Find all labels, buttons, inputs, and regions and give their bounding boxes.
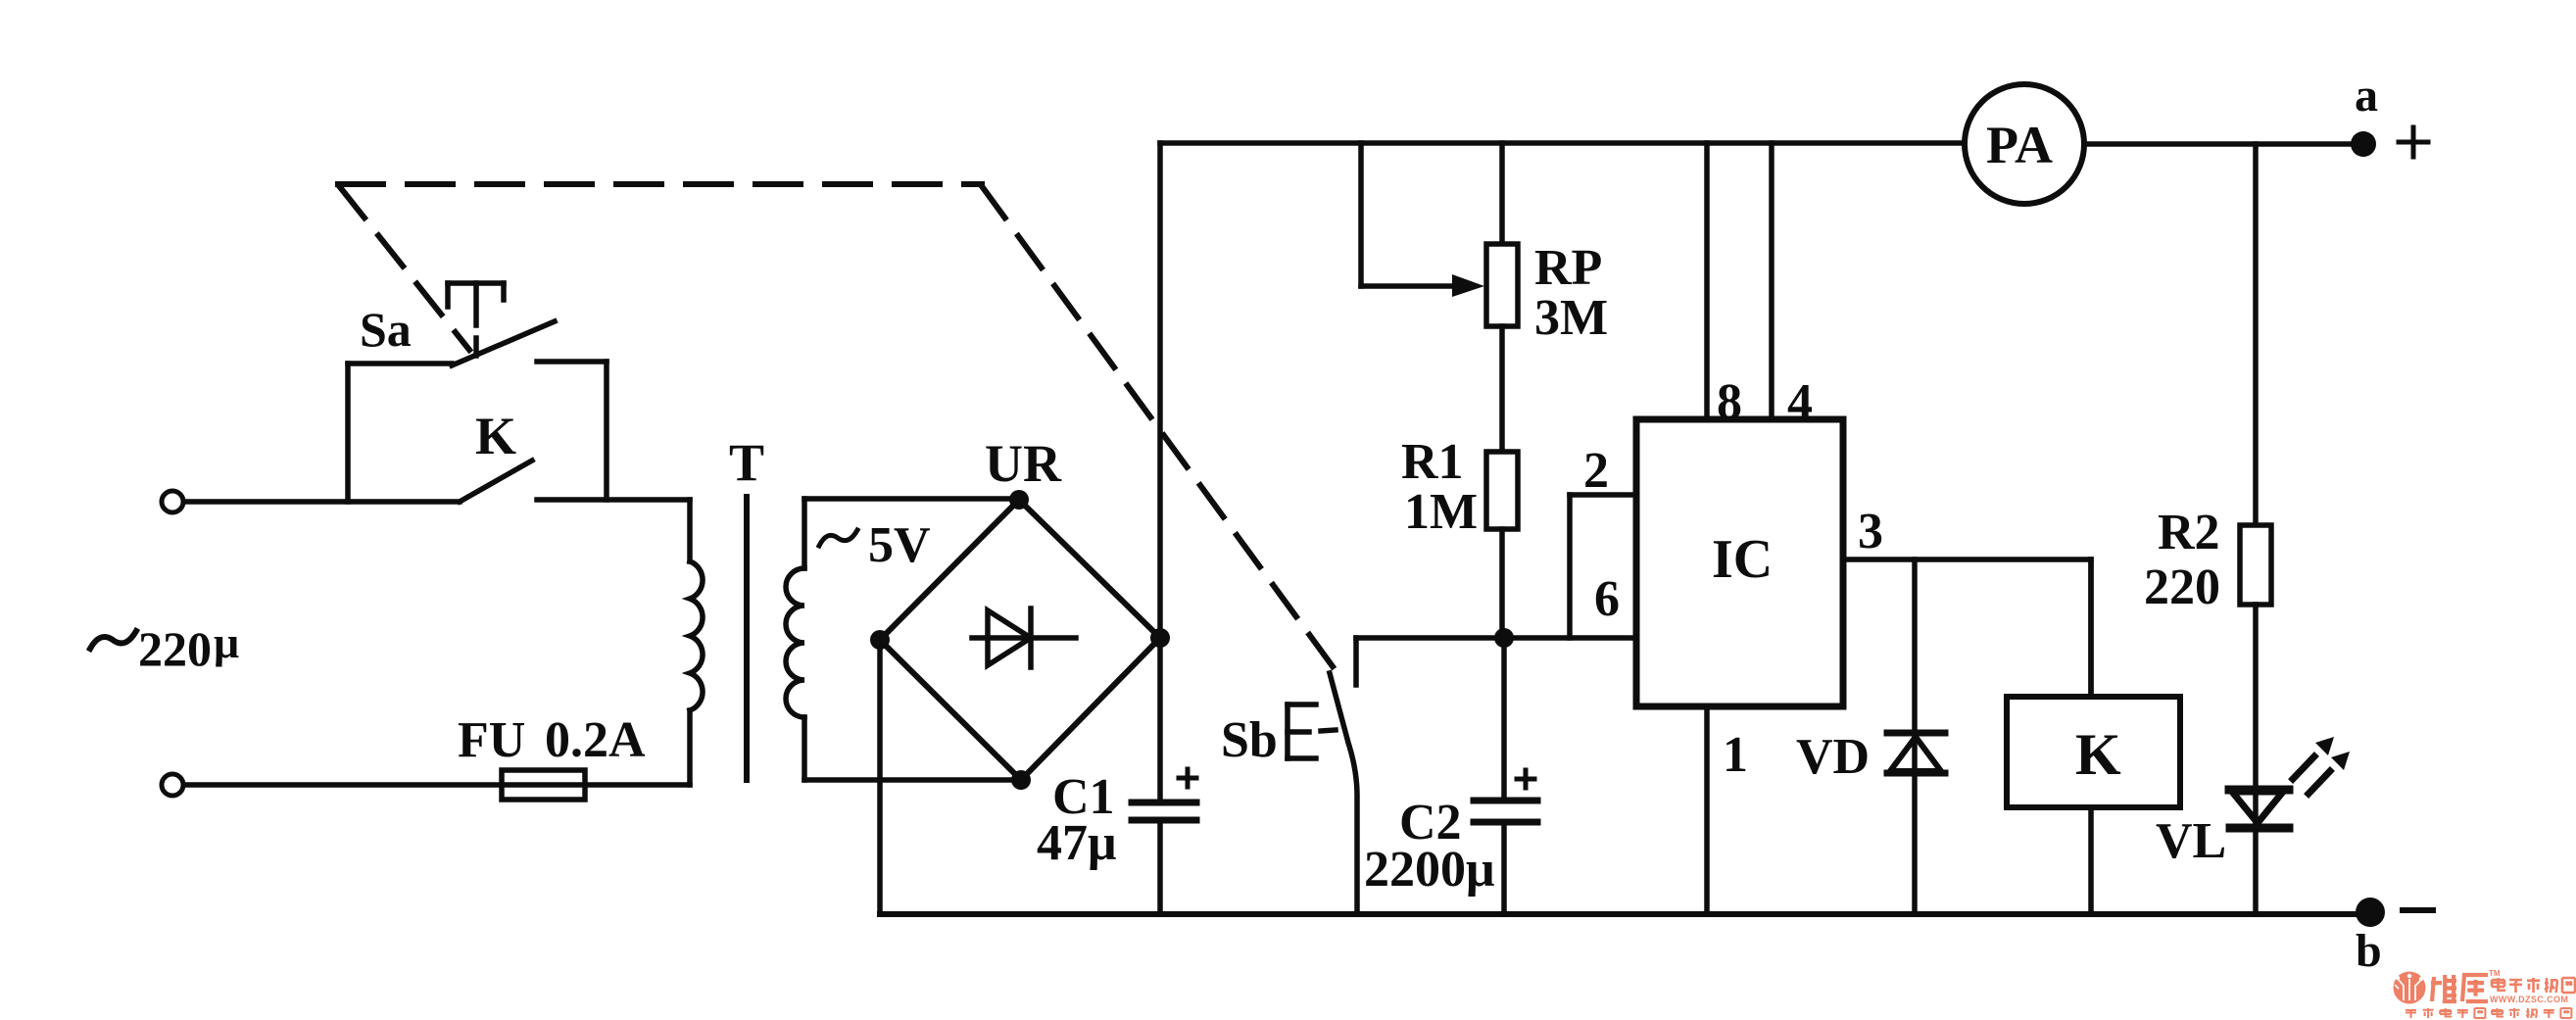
node bridge right xyxy=(1150,628,1170,648)
minus sign at b xyxy=(2403,907,2433,913)
svg-text:0.2A: 0.2A xyxy=(545,712,646,768)
meter PA xyxy=(1965,84,2084,204)
svg-text:4: 4 xyxy=(1787,374,1813,430)
dashed linkage diagonal to Sb xyxy=(982,186,1337,673)
dashed linkage diagonal to Sa xyxy=(340,187,469,350)
svg-text:1: 1 xyxy=(1723,727,1748,783)
node bridge left xyxy=(870,630,890,650)
dashed linkage horizontal xyxy=(338,181,982,187)
svg-text:RP: RP xyxy=(1534,240,1602,296)
relay K box xyxy=(2007,697,2180,807)
terminal input bottom-left xyxy=(162,774,183,796)
pin 6 wire xyxy=(1504,635,1636,641)
wire Sb hook to node xyxy=(1356,638,1504,685)
pin 1 wire xyxy=(1704,706,1710,914)
watermark text 维库 xyxy=(2431,975,2488,1001)
wire Sa branch left vertical xyxy=(345,364,351,502)
relay contact K (arm) xyxy=(460,461,532,502)
pin 2 wire xyxy=(1570,495,1636,638)
node bridge top xyxy=(1009,490,1029,510)
svg-text:IC: IC xyxy=(1712,529,1773,590)
C2 plus sign xyxy=(1517,770,1534,788)
switch Sb moving contact xyxy=(1330,673,1357,914)
RP wiper wire xyxy=(1361,143,1484,297)
pin 4 wire xyxy=(1769,143,1774,419)
wire secondary top to bridge xyxy=(804,496,1019,502)
svg-text:K: K xyxy=(2075,722,2121,787)
svg-text:1M: 1M xyxy=(1404,484,1478,540)
potentiometer RP body xyxy=(1486,244,1518,326)
watermark logo xyxy=(2394,972,2426,1004)
wire secondary bottom to bridge xyxy=(804,777,1023,783)
wire Sa right contact xyxy=(537,359,607,364)
diode VD wire xyxy=(1912,559,1918,914)
svg-text:a: a xyxy=(2355,70,2378,121)
svg-text:R1: R1 xyxy=(1401,434,1464,490)
switch Sa plunger xyxy=(448,283,504,356)
svg-text:UR: UR xyxy=(985,434,1062,493)
transformer T primary xyxy=(690,500,703,785)
svg-text:6: 6 xyxy=(1594,571,1620,627)
svg-text:Sb: Sb xyxy=(1221,712,1278,768)
svg-text:K: K xyxy=(475,407,516,465)
terminal input top-left xyxy=(162,491,183,512)
svg-text:FU: FU xyxy=(458,712,525,768)
watermark slogan xyxy=(2406,1008,2571,1018)
svg-text:3M: 3M xyxy=(1534,290,1608,346)
fuse FU xyxy=(502,770,585,800)
pin 3 wire xyxy=(1843,559,2091,697)
svg-text:220: 220 xyxy=(138,621,212,676)
wire top rail right xyxy=(2084,141,2363,147)
wire rail to R2 xyxy=(2253,144,2259,525)
wire DC plus vertical (rail to bottom) xyxy=(1157,143,1163,914)
svg-text:b: b xyxy=(2356,925,2382,977)
resistor R1 body xyxy=(1486,452,1518,529)
wire bottom input to transformer xyxy=(184,782,690,788)
svg-text:PA: PA xyxy=(1986,116,2053,174)
svg-text:3: 3 xyxy=(1858,504,1883,559)
watermark text 电子市场网 xyxy=(2492,978,2575,993)
capacitor C1 xyxy=(1132,802,1196,820)
svg-text:47μ: 47μ xyxy=(1037,815,1116,871)
svg-text:VD: VD xyxy=(1796,729,1870,785)
transformer secondary xyxy=(786,499,804,780)
wire bottom rail xyxy=(880,911,2370,917)
svg-text:5V: 5V xyxy=(868,517,931,573)
C1 plus sign xyxy=(1179,769,1196,787)
wire Sa branch left horizontal xyxy=(348,361,452,366)
wire Sa branch right vertical xyxy=(604,362,609,500)
plus sign at a xyxy=(2399,127,2428,157)
svg-text:220: 220 xyxy=(2144,559,2220,615)
transformer core xyxy=(744,497,750,780)
IC box xyxy=(1636,419,1843,706)
wire top rail left xyxy=(1160,140,1966,146)
svg-text:TM: TM xyxy=(2489,969,2501,978)
svg-text:R2: R2 xyxy=(2158,505,2220,560)
label ~5V xyxy=(819,517,931,573)
svg-text:Sa: Sa xyxy=(360,302,412,357)
wire K box bottom xyxy=(2088,807,2094,914)
svg-text:2200μ: 2200μ xyxy=(1364,842,1494,898)
capacitor C2 xyxy=(1501,638,1507,914)
svg-text:WWW.DZSC.COM: WWW.DZSC.COM xyxy=(2490,995,2568,1004)
node R1-C2-pin6 junction xyxy=(1494,628,1514,648)
svg-text:8: 8 xyxy=(1717,374,1742,430)
label ~220u xyxy=(90,617,239,676)
wire K contact to transformer xyxy=(537,497,690,503)
diode VD symbol xyxy=(1887,733,1945,773)
wire rail to RP xyxy=(1499,143,1505,244)
switch Sa arm xyxy=(452,321,555,365)
svg-text:T: T xyxy=(729,433,764,492)
wire DC minus vertical (bridge left node down) xyxy=(877,640,883,914)
LED VL symbol xyxy=(2229,790,2289,828)
wire R1 to node xyxy=(1499,529,1505,638)
svg-text:VL: VL xyxy=(2156,813,2226,869)
wire top input to K contact xyxy=(184,499,460,505)
node bridge bottom xyxy=(1011,770,1031,790)
wire RP to R1 xyxy=(1499,326,1505,452)
switch Sb actuator bracket xyxy=(1288,704,1336,758)
terminal a xyxy=(2351,131,2376,157)
wire K box top xyxy=(2088,559,2094,697)
svg-text:2: 2 xyxy=(1583,443,1609,499)
bridge rectifier UR diamond xyxy=(880,500,1160,780)
wire R2 to LED to rail xyxy=(2253,605,2259,914)
svg-text:μ: μ xyxy=(214,617,239,667)
terminal b xyxy=(2356,898,2385,927)
LED arrows xyxy=(2293,737,2350,794)
resistor R2 body xyxy=(2240,525,2271,605)
bridge inner diode xyxy=(972,608,1076,667)
pin 8 wire xyxy=(1704,143,1710,419)
